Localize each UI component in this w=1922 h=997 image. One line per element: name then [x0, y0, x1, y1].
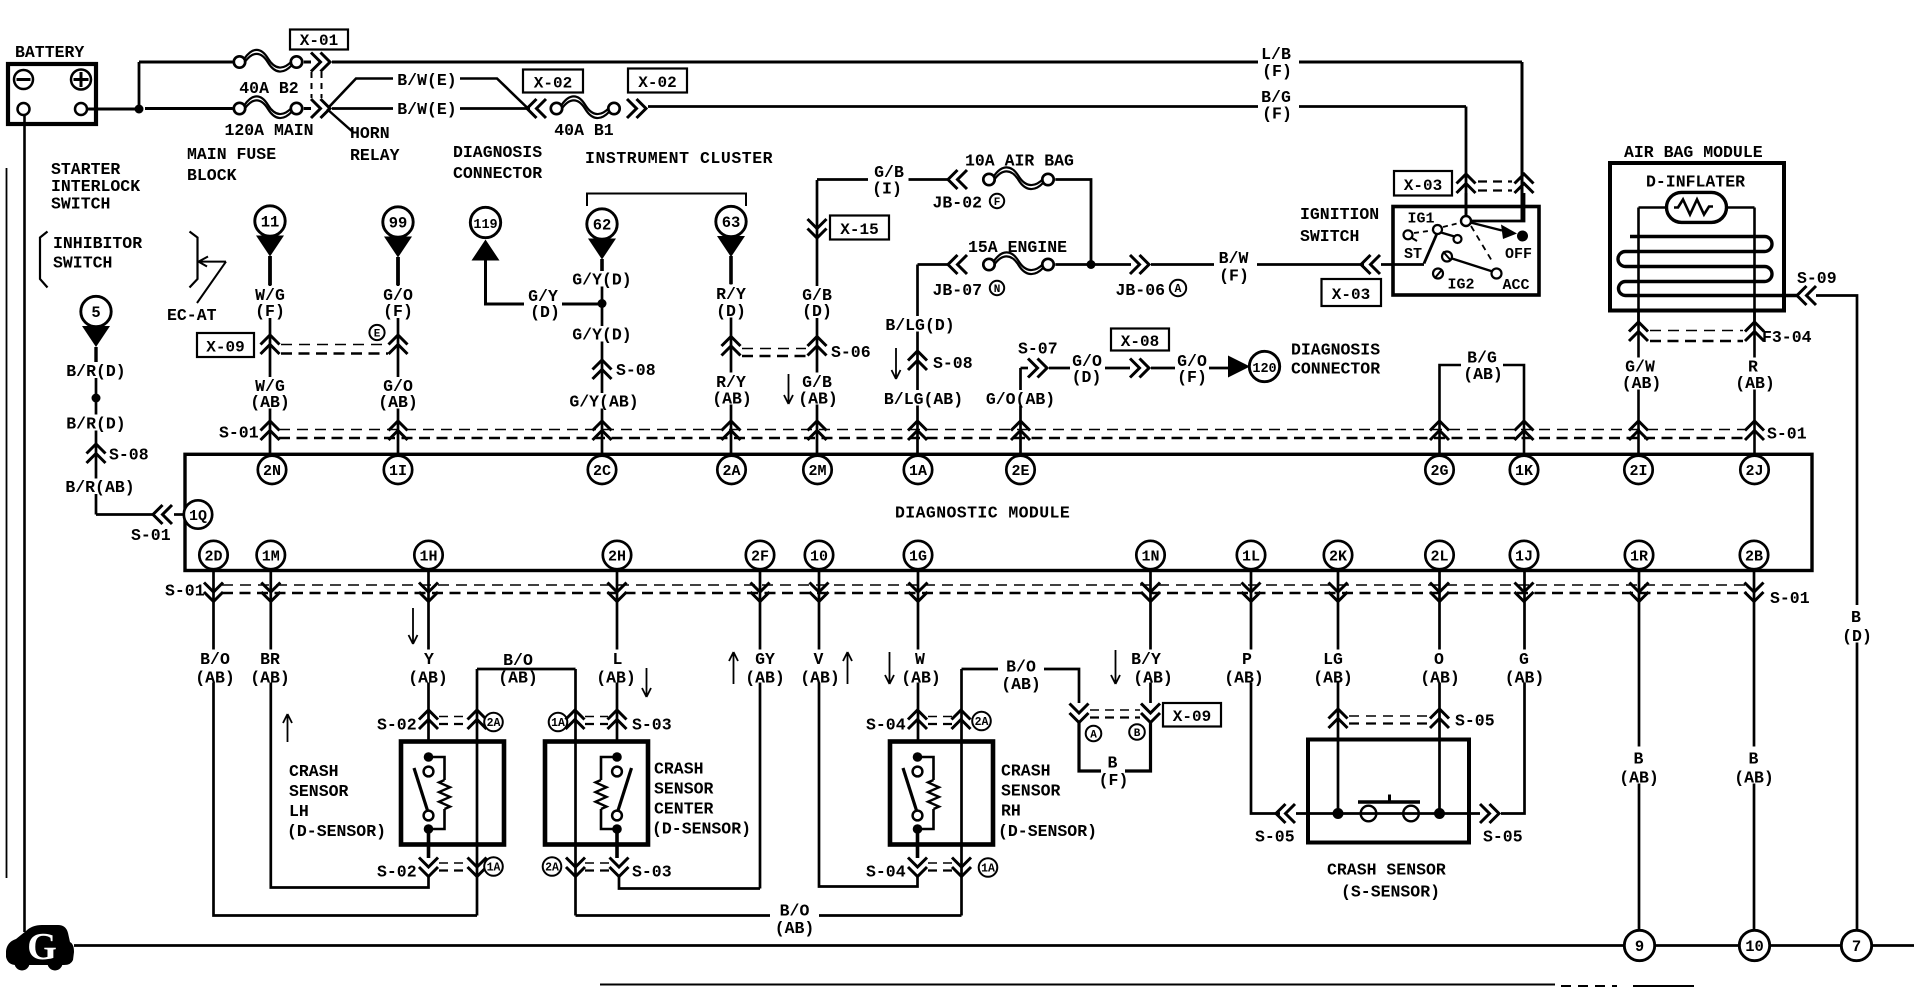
connector S-01 on R [1745, 421, 1764, 440]
connector S-01 arrows [1515, 583, 1534, 602]
dashed IG1-pivot [1443, 223, 1459, 227]
wire R column [1753, 310, 1756, 456]
svg-text:W: W [915, 650, 925, 669]
wire label P (AB) [1225, 650, 1270, 683]
svg-text:X-03: X-03 [1332, 286, 1370, 304]
svg-text:1A: 1A [551, 717, 565, 730]
svg-text:CRASH: CRASH [289, 762, 339, 781]
connector X-01 lower arrows [311, 99, 330, 118]
svg-text:1A: 1A [487, 862, 501, 875]
svg-text:AIR BAG MODULE: AIR BAG MODULE [1624, 143, 1763, 162]
svg-text:DIAGNOSIS: DIAGNOSIS [1291, 341, 1380, 360]
switch blade B/W to IG1 [1424, 234, 1437, 264]
svg-text:(AB): (AB) [1313, 669, 1353, 688]
wire label B (AB) left [1615, 747, 1663, 784]
svg-text:CONNECTOR: CONNECTOR [453, 164, 542, 183]
EC-AT arrow symbol [197, 257, 226, 304]
wire B/O(AB) linking LH 2A to center 1A [477, 668, 576, 671]
svg-text:(D-SENSOR): (D-SENSOR) [998, 822, 1097, 841]
svg-text:BR: BR [260, 650, 280, 669]
wire B(D) from S-09 down to terminal 7 [1816, 296, 1857, 931]
svg-text:B/R(D): B/R(D) [66, 415, 125, 434]
circled 1A at LH sensor bottom [484, 857, 503, 876]
wire label B/W(E) upper [393, 70, 461, 87]
connector S-08 on B/R [87, 444, 106, 463]
link IG1 to center contact [1441, 233, 1455, 237]
svg-text:B/W(E): B/W(E) [397, 100, 456, 119]
inhibitor bracket left [40, 232, 48, 288]
svg-text:2N: 2N [263, 463, 281, 480]
module pin 2K [1324, 541, 1352, 569]
svg-text:120A MAIN: 120A MAIN [224, 121, 313, 140]
svg-text:2A: 2A [487, 717, 501, 730]
svg-text:2M: 2M [808, 463, 826, 480]
svg-text:X-15: X-15 [840, 221, 878, 239]
connector S-01 on B/G(AB) [1430, 421, 1449, 440]
svg-text:15A ENGINE: 15A ENGINE [968, 238, 1067, 257]
connector X-08 arrows [1130, 359, 1149, 378]
connector S-04 upper pairing dashes [928, 716, 952, 718]
svg-text:2G: 2G [1430, 463, 1448, 480]
bottom page border line [600, 984, 1555, 986]
circled B [1129, 724, 1145, 740]
terminal 11 [255, 206, 285, 236]
svg-text:1M: 1M [262, 548, 280, 565]
link IG2-ACC [1452, 259, 1493, 272]
svg-text:L: L [613, 650, 623, 669]
svg-text:S-09: S-09 [1797, 269, 1837, 288]
connector S-03 lower arrows [610, 858, 629, 877]
wire label L (AB) [595, 650, 642, 683]
svg-text:CENTER: CENTER [654, 800, 714, 819]
wire label R/Y (AB) [709, 373, 753, 405]
svg-text:2I: 2I [1629, 463, 1647, 480]
svg-text:S-04: S-04 [866, 716, 906, 735]
svg-text:(AB): (AB) [250, 669, 290, 688]
heater coil [1618, 237, 1797, 296]
direction arrow G/B [784, 374, 793, 404]
circled A [1086, 726, 1102, 742]
svg-text:MAIN FUSE: MAIN FUSE [187, 145, 276, 164]
wire label B/Y (AB) [1124, 650, 1184, 683]
svg-text:2B: 2B [1745, 548, 1763, 565]
wire L/B down to ignition switch [1521, 62, 1524, 220]
svg-text:63: 63 [722, 214, 741, 232]
svg-text:B: B [1108, 754, 1118, 773]
wire Y from 1H to LH sensor [427, 570, 430, 742]
fuse 40A B2 [234, 56, 245, 67]
svg-text:11: 11 [261, 214, 280, 232]
wire center sensor bottom pin [615, 830, 619, 858]
svg-text:2A: 2A [975, 716, 989, 729]
svg-text:X-08: X-08 [1121, 333, 1159, 351]
svg-text:B/O: B/O [780, 902, 810, 921]
svg-text:40A B2: 40A B2 [239, 79, 298, 98]
svg-text:S-08: S-08 [109, 446, 149, 465]
svg-text:ACC: ACC [1502, 277, 1529, 294]
svg-text:X-09: X-09 [206, 339, 244, 357]
ground car symbol G [6, 925, 74, 965]
arrow from terminal 62 [588, 239, 616, 260]
svg-text:LG: LG [1323, 650, 1343, 669]
svg-text:CRASH: CRASH [654, 760, 704, 779]
connector X-02 label box right [628, 69, 687, 93]
svg-text:2F: 2F [751, 548, 769, 565]
wire B/W (F) to ignition [1095, 263, 1131, 266]
wire stub below arrow 62 [600, 259, 604, 271]
svg-text:B: B [1134, 728, 1141, 740]
svg-text:B/O: B/O [1006, 658, 1036, 677]
crash sensor LH D-SENSOR box [401, 742, 504, 845]
D-inflater squib (stadium with resistor) [1667, 192, 1727, 222]
svg-text:1A: 1A [909, 463, 927, 480]
wire label G/O (AB) [374, 377, 422, 409]
svg-text:(F): (F) [1099, 771, 1129, 790]
svg-text:B/LG(D): B/LG(D) [885, 316, 954, 335]
instrument cluster bracket over pins 62/63 [587, 194, 746, 207]
lower contact [1433, 269, 1443, 279]
svg-text:S-07: S-07 [1018, 340, 1058, 359]
connector S-03 upper pairing dashes [585, 716, 608, 718]
arrow into terminal 119 [472, 240, 500, 261]
junction 10A/15A feed [1087, 260, 1096, 269]
wire label G/B (AB) [795, 373, 839, 405]
connector S-01 on B/LG [908, 421, 927, 440]
terminal 120 diagnosis connector [1249, 351, 1279, 381]
wire G from S-sensor to 1J [1501, 570, 1525, 814]
svg-text:S-02: S-02 [377, 863, 417, 882]
wire V from 10 to RH sensor bottom [819, 570, 918, 887]
connector S-02 2A-side arrows [468, 710, 487, 729]
svg-text:SWITCH: SWITCH [53, 254, 112, 273]
svg-text:B/R(AB): B/R(AB) [65, 478, 134, 497]
svg-text:(AB): (AB) [712, 390, 752, 409]
wire label G (AB) [1502, 650, 1547, 683]
circled N [990, 281, 1004, 295]
svg-text:(AB): (AB) [775, 919, 815, 938]
connector S-01 arrows [261, 583, 280, 602]
connector S-01 arrows [419, 583, 438, 602]
module pin 2D [199, 541, 227, 569]
svg-text:(AB): (AB) [1463, 365, 1503, 384]
wire B/O from 2D to LH sensor 1A [214, 570, 478, 916]
svg-text:EC-AT: EC-AT [167, 306, 217, 325]
svg-text:(AB): (AB) [800, 669, 840, 688]
svg-text:62: 62 [593, 217, 612, 235]
ground rail [74, 944, 1624, 947]
wire G/W column [1637, 310, 1640, 456]
dashed pivot-ACC [1471, 226, 1492, 261]
circled 2A at LH sensor top [484, 713, 503, 732]
connector S-04 lower pairing dashes [928, 862, 952, 864]
connector X-15 label box [830, 216, 889, 240]
wire label G/Y (D) [524, 287, 562, 319]
direction arrow W [885, 652, 894, 684]
svg-text:D-INFLATER: D-INFLATER [1646, 173, 1745, 192]
wire G/O column from 2E [1019, 368, 1022, 456]
svg-text:X-01: X-01 [300, 32, 338, 50]
wire B from 2B to terminal 10 [1753, 570, 1756, 931]
svg-text:(AB): (AB) [250, 393, 290, 412]
circled 2A at center sensor bottom [543, 857, 562, 876]
svg-text:INSTRUMENT CLUSTER: INSTRUMENT CLUSTER [585, 149, 773, 168]
inhibitor bracket right [190, 232, 198, 288]
svg-text:2J: 2J [1745, 463, 1763, 480]
battery lower-right terminal [75, 103, 87, 115]
wire B/W(E) lower [332, 107, 394, 110]
IG1 contact [1433, 225, 1442, 234]
svg-text:A: A [1175, 283, 1182, 296]
svg-text:(AB): (AB) [408, 669, 448, 688]
fuse 120A MAIN [234, 103, 245, 114]
svg-text:B/R(D): B/R(D) [66, 362, 125, 381]
center small contact [1454, 235, 1462, 243]
wire B/G(AB) bracket to pins 2G and 1K [1440, 365, 1462, 456]
S-sensor blade tick [1388, 795, 1391, 803]
wire B/W(E) upper branch [329, 79, 394, 108]
connector X-03 lower label box [1322, 279, 1382, 306]
wire label Y (AB) [405, 650, 452, 683]
wire stub below arrow 63 [729, 256, 733, 284]
fuse 40A B1 [551, 103, 562, 114]
svg-text:B: B [1634, 750, 1644, 769]
svg-text:SENSOR: SENSOR [654, 780, 714, 799]
wire B/O(AB) through center box [574, 669, 577, 916]
wire B from 1R to terminal 9 [1638, 570, 1641, 931]
wire G/Y(D) from 119 [486, 260, 603, 304]
svg-text:RELAY: RELAY [350, 146, 400, 165]
wire LG from 2K [1337, 570, 1340, 814]
module pin 2I [1624, 456, 1652, 484]
svg-text:10A AIR BAG: 10A AIR BAG [965, 152, 1074, 171]
crash sensor RH D-SENSOR box [890, 742, 993, 845]
module pin 1M [257, 541, 285, 569]
wire label G/B (D) [797, 286, 837, 318]
svg-text:(D): (D) [1072, 368, 1102, 387]
wire L from 2H to center sensor [616, 570, 619, 742]
svg-text:X-02: X-02 [534, 75, 572, 93]
module pin 2N [258, 456, 286, 484]
pivot contact [1461, 216, 1471, 226]
connector S-08 on B/LG [908, 351, 927, 370]
svg-text:BATTERY: BATTERY [15, 43, 84, 62]
svg-text:(AB): (AB) [378, 393, 418, 412]
svg-text:S-06: S-06 [831, 343, 871, 362]
svg-text:(AB): (AB) [195, 669, 235, 688]
connector X-02 label box left [523, 70, 583, 93]
circled 2A at RH sensor top [972, 712, 991, 731]
connector S-04 lower arrows [908, 858, 927, 877]
wire B/G feed to right [648, 105, 1258, 108]
svg-text:(AB): (AB) [1420, 669, 1460, 688]
connector X-09 label box [197, 333, 254, 357]
ST contact tail [1412, 238, 1417, 241]
wire BR from 1M to LH sensor bottom [271, 570, 429, 888]
svg-text:(AB): (AB) [1224, 669, 1264, 688]
connector S-05 left arrows [1276, 804, 1295, 823]
svg-text:1L: 1L [1242, 548, 1260, 565]
connector S-01 on G/Y [593, 421, 612, 440]
crash sensor S-SENSOR box [1308, 740, 1469, 843]
svg-text:(AB): (AB) [1619, 769, 1659, 788]
svg-text:CRASH: CRASH [1001, 762, 1051, 781]
wire 10A fuse down to junction [1055, 180, 1091, 263]
connector S-01 arrows [1242, 583, 1261, 602]
wire label B/O (AB) bus [770, 900, 819, 919]
svg-text:B/W(E): B/W(E) [397, 71, 456, 90]
svg-text:G/O(AB): G/O(AB) [986, 390, 1055, 409]
module pin 2M [803, 456, 831, 484]
svg-text:1K: 1K [1515, 463, 1533, 480]
wire label G/W (AB) [1617, 358, 1663, 390]
connector S-01 arrows [204, 583, 223, 602]
connector X-01 upper arrows [311, 53, 330, 72]
circled F [990, 194, 1004, 208]
module pin 10 [805, 541, 833, 569]
wire to fuse 120A MAIN [145, 107, 233, 110]
svg-text:O: O [1434, 650, 1444, 669]
wire fuse B2 to X-01 [304, 61, 311, 64]
wire label B/LG(AB) [879, 390, 968, 406]
junction on B/R wire [92, 394, 101, 403]
wire G/O column [397, 257, 400, 456]
svg-text:S-01: S-01 [1767, 425, 1807, 444]
fuse 15A ENGINE [983, 259, 994, 270]
connector X-09 B-side arrows [1141, 704, 1160, 723]
svg-text:S-02: S-02 [377, 716, 417, 735]
svg-text:G: G [1519, 650, 1529, 669]
svg-text:(AB): (AB) [798, 390, 838, 409]
module pin 1J [1510, 541, 1538, 569]
connector X-08 label box [1111, 329, 1169, 351]
connector X-03 arrows on L/B [1515, 174, 1534, 193]
wire L/B into pivot [1471, 193, 1524, 221]
wire label B/R(AB) [61, 479, 139, 495]
connector X-03 arrows on B/G [1457, 174, 1476, 193]
svg-text:2E: 2E [1011, 463, 1029, 480]
connector S-01 arrows at 1Q [153, 505, 172, 524]
wire B/W(E) upper rejoins [460, 79, 527, 108]
wire W from 1G to RH sensor [917, 570, 920, 742]
wire B(F) left leg [1079, 723, 1101, 772]
arrow from terminal 5 [82, 326, 110, 347]
svg-text:BLOCK: BLOCK [187, 166, 237, 185]
direction arrow GY [729, 652, 738, 684]
connector X-09 on W/G [261, 335, 280, 354]
wire center sensor bottom to GY [619, 877, 760, 889]
connector S-02 upper pairing dashes [439, 716, 466, 718]
svg-text:1Q: 1Q [189, 508, 207, 525]
wire P from 1L to S-sensor [1251, 570, 1280, 814]
connector F3-04 on R [1745, 322, 1764, 341]
connector S-05 on O [1430, 709, 1449, 728]
connector S-01 arrows [810, 583, 829, 602]
svg-text:(D): (D) [716, 302, 746, 321]
svg-text:SENSOR: SENSOR [289, 782, 349, 801]
wire label GY (AB) [742, 650, 788, 683]
connector S-04 2A-side arrows [952, 710, 971, 729]
lower contact tail [1435, 270, 1443, 279]
connector S-01 on G/W [1629, 421, 1648, 440]
wire label V (AB) [797, 650, 842, 683]
arrow from terminal 99 [384, 237, 412, 258]
svg-text:Y: Y [424, 650, 434, 669]
wire stub below arrow 99 [396, 257, 400, 285]
circled E [369, 325, 384, 340]
svg-text:(F): (F) [1262, 105, 1292, 124]
S-01 connector dashed rail above diagnostic module [279, 429, 1747, 431]
svg-text:(AB): (AB) [1735, 374, 1775, 393]
IG2 contact [1442, 252, 1452, 262]
wire GY from 2F [759, 570, 762, 889]
svg-text:(AB): (AB) [1622, 374, 1662, 393]
svg-text:S-03: S-03 [632, 716, 672, 735]
terminal 63 [716, 206, 746, 236]
svg-text:LH: LH [289, 802, 309, 821]
wire label W (AB) [898, 650, 943, 683]
svg-text:X-03: X-03 [1404, 177, 1442, 195]
wire B/Y from 1N [1149, 570, 1152, 704]
wire label B/G (F) [1259, 88, 1295, 121]
svg-text:DIAGNOSIS: DIAGNOSIS [453, 143, 542, 162]
svg-text:2A: 2A [545, 862, 559, 875]
wire B/O(AB) bus center 2A to RH 1A [576, 914, 962, 917]
wire B/LG from 15A fuse [918, 263, 951, 266]
wire to fuse 40A B2 [139, 61, 233, 64]
connector S-01 arrows [1630, 583, 1649, 602]
svg-text:2L: 2L [1430, 548, 1448, 565]
svg-text:X-09: X-09 [1173, 708, 1211, 726]
terminal 5 inhibitor switch [81, 296, 111, 326]
wire stub below arrow 11 [268, 256, 272, 285]
svg-text:CONNECTOR: CONNECTOR [1291, 360, 1380, 379]
crash sensor CENTER D-SENSOR box [545, 742, 648, 845]
battery positive terminal [71, 70, 91, 90]
connector S-06 on R/Y [722, 337, 741, 356]
svg-text:(S-SENSOR): (S-SENSOR) [1341, 883, 1440, 902]
terminal 62 [587, 209, 617, 239]
svg-text:S-01: S-01 [1770, 589, 1810, 608]
connector X-15 on G/B [808, 219, 827, 238]
connector S-01 arrows [1141, 583, 1160, 602]
svg-text:5: 5 [91, 304, 100, 322]
wire O from 2L [1438, 570, 1441, 814]
wire G/O (D) [1049, 367, 1070, 370]
connector S-02 lower arrows [419, 858, 438, 877]
svg-text:OFF: OFF [1505, 246, 1532, 263]
svg-text:SWITCH: SWITCH [51, 195, 110, 214]
connector S-02 lower pairing dashes [439, 862, 466, 864]
module pin 1R [1625, 541, 1653, 569]
connector S-01 on G/O [389, 421, 408, 440]
svg-text:S-01: S-01 [219, 424, 259, 443]
direction arrow V [843, 652, 852, 684]
S-sensor switch [1333, 808, 1344, 819]
wire up to 40A B2 fuse [138, 62, 141, 109]
svg-text:JB-07: JB-07 [933, 281, 983, 300]
svg-text:(AB): (AB) [901, 669, 941, 688]
connector JB-06 arrows [1130, 255, 1149, 274]
connector S-05 right arrows [1480, 804, 1499, 823]
connector S-01 on G/O [1011, 421, 1030, 440]
svg-text:INTERLOCK: INTERLOCK [51, 177, 140, 196]
wire label B/R(D) lower [62, 415, 130, 431]
ground terminal 7 [1841, 930, 1871, 960]
svg-text:S-05: S-05 [1483, 828, 1523, 847]
wire label G/Y(D) above junction [567, 271, 637, 287]
connector S-03 1A-side arrows [566, 710, 585, 729]
module pin 1G [904, 541, 932, 569]
